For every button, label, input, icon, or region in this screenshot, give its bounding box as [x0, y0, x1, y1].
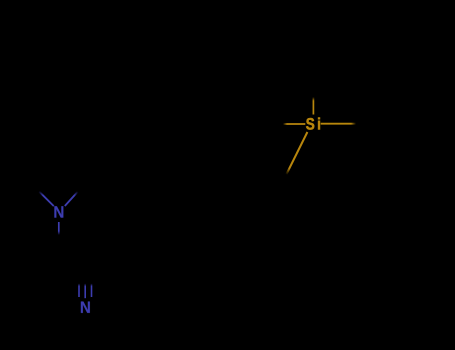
bond Si-C (methyl, left) [283, 123, 305, 125]
bond N1-CH2 (N-cyanomethyl) [58, 222, 60, 235]
bond Si-C (tert-butyl, up) [312, 97, 314, 115]
atom N1 (azetidine nitrogen) [54, 206, 63, 217]
triple bond C-N line 3 (nitrile, right) [91, 284, 93, 298]
bond Si-C (phenyl, right) [321, 123, 356, 125]
bond N1-C2 (azetidine ring, upper-left) [39, 191, 54, 206]
triple bond C-N line 2 (nitrile, middle) [84, 284, 86, 299]
atom N2 (nitrile nitrogen) [81, 302, 90, 313]
bond Si-C (chain, lower-left diagonal) [286, 132, 307, 175]
triple bond C-N line 1 (nitrile, left) [78, 284, 80, 298]
atom Si: letter i [318, 118, 320, 130]
bond N1-C4 (azetidine ring, upper-right) [65, 192, 78, 207]
atom Si: letter S [306, 118, 314, 130]
